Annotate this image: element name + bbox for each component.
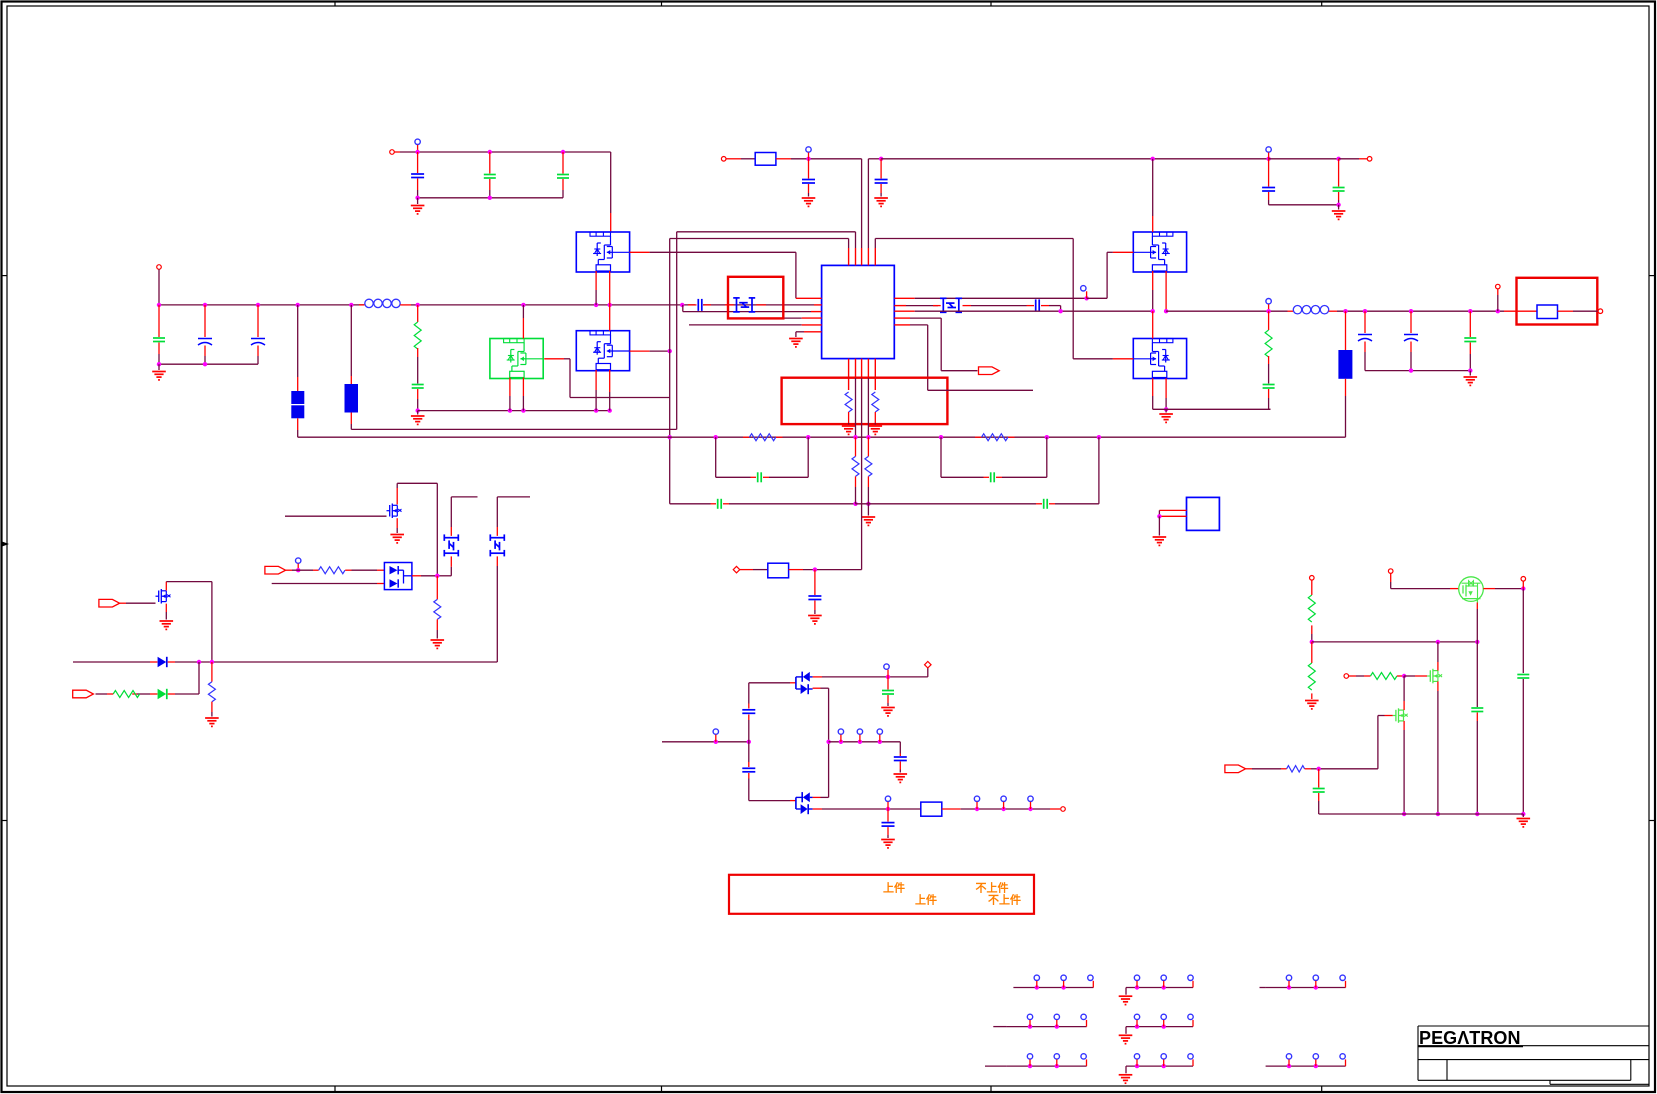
resistor R12 (green)	[132, 693, 137, 695]
resistor R18 (green)	[1311, 642, 1313, 663]
border tick top 3	[990, 2, 992, 7]
ground	[205, 718, 219, 726]
Q8 output	[412, 575, 421, 577]
wire riser to Q1	[610, 152, 612, 213]
resistor R11 (box style)	[768, 563, 789, 578]
terminal	[1310, 576, 1315, 581]
ground	[802, 198, 816, 206]
ground	[158, 364, 160, 370]
capacitor C4	[158, 305, 160, 337]
sense red box	[782, 378, 948, 424]
Q6 source + ground	[165, 604, 167, 612]
component U2 (blue square)	[1187, 497, 1220, 530]
svg-text:不上件: 不上件	[976, 881, 1009, 895]
power symbol circle	[296, 558, 301, 563]
capacitor C2	[489, 152, 491, 174]
Q3 top pin	[522, 305, 524, 318]
off-page arrow connector	[73, 690, 94, 698]
capacitor C18 series	[751, 476, 757, 478]
capacitor C16	[1268, 159, 1270, 187]
capacitor C25	[887, 677, 889, 690]
resistor R9 center column	[855, 437, 857, 456]
connector J8	[1266, 1054, 1346, 1069]
Q1 output pin	[630, 251, 650, 253]
border tick top 4	[1321, 2, 1323, 7]
resistor R13	[211, 662, 213, 682]
resistor R17 (green)	[1311, 580, 1313, 595]
terminal P1	[390, 150, 395, 155]
Q7 source + ground	[396, 518, 398, 528]
node dot	[813, 567, 817, 571]
resistor R1	[417, 305, 419, 322]
node A dots	[157, 303, 161, 307]
outer loop right	[856, 503, 1037, 505]
capacitor C12	[1263, 385, 1275, 389]
wire + terminal	[1050, 808, 1060, 810]
connector J1	[1013, 975, 1093, 990]
capacitor C11	[880, 159, 882, 179]
Q2 top pin	[609, 305, 611, 331]
Q11 source down	[1403, 721, 1405, 730]
resistor R10 center column	[867, 437, 869, 456]
pin left L5 wire	[689, 324, 802, 326]
capacitor C15	[1469, 311, 1471, 337]
pin left L2 bus entry	[703, 304, 814, 306]
pin left L1	[796, 297, 822, 299]
Q10 drain/source risers	[1437, 642, 1439, 662]
node dot	[1266, 157, 1270, 161]
terminal P3	[721, 157, 726, 162]
terminal	[1367, 157, 1372, 162]
capacitor C1	[417, 152, 419, 173]
wire gate drive top A	[677, 231, 856, 233]
Q11 gate wire	[1385, 715, 1393, 717]
node dot	[415, 150, 419, 154]
pin left L6 + ground	[804, 331, 822, 333]
connector J7	[1119, 1054, 1194, 1084]
pin bottom stubs	[848, 359, 850, 390]
wire cap rail	[1365, 370, 1470, 372]
wire	[394, 151, 400, 153]
off-page arrow connector	[265, 566, 286, 574]
Q5 top pin	[1152, 311, 1154, 338]
connector J3	[1266, 975, 1346, 990]
capacitor C13 polarized	[1364, 311, 1366, 333]
pin right R2	[894, 305, 906, 307]
wire source rail	[418, 410, 610, 412]
capacitor C28	[1517, 675, 1529, 679]
capacitor C20 series	[711, 503, 717, 505]
border tick right 1	[1649, 275, 1655, 277]
resistor R19 (green)	[1364, 675, 1371, 677]
RC loop 1	[715, 437, 717, 477]
node dot	[1157, 514, 1161, 518]
Q3 bottom pins	[509, 378, 511, 397]
wire gate drive top B	[670, 238, 849, 240]
pin 2	[1159, 515, 1186, 517]
ground	[1338, 205, 1340, 210]
pin top 1	[848, 248, 850, 265]
connector J5	[1119, 1014, 1194, 1044]
wire rail	[159, 363, 258, 365]
wire R4 to arrow	[941, 370, 977, 372]
pin top 4	[867, 248, 869, 265]
capacitor C6 polarized	[257, 305, 259, 337]
extra wire tails	[993, 1026, 1006, 1028]
off-page arrow connector	[99, 599, 120, 607]
capacitor C14 polarized	[1410, 311, 1412, 333]
transistor Q5 (low-side boxed mosfet, mirrored)	[1133, 339, 1186, 379]
connector J6	[1007, 1054, 1087, 1069]
right vertical with cap	[1522, 589, 1524, 673]
pin right R4	[894, 317, 910, 319]
crystal X1	[725, 304, 734, 306]
off-page arrow connector	[979, 367, 1000, 375]
ground	[1165, 409, 1167, 412]
terminal	[1388, 569, 1393, 574]
power symbol circle	[1266, 147, 1271, 152]
svg-text:不上件: 不上件	[988, 893, 1021, 907]
node dot	[488, 150, 492, 154]
capacitor C19 series	[984, 476, 990, 478]
crystal X1 red box	[728, 277, 783, 319]
gate chain terminal	[1344, 674, 1349, 679]
border tick bottom 2	[661, 1086, 663, 1092]
Q2 bottom pins	[595, 370, 597, 390]
svg-text:上件: 上件	[915, 893, 937, 907]
wire bottom output row	[813, 808, 822, 810]
node dot	[806, 157, 810, 161]
wire middle output row	[829, 741, 901, 743]
inductor L1	[359, 304, 365, 306]
wire	[776, 158, 791, 160]
wire input	[662, 741, 749, 743]
node dot B	[879, 157, 883, 161]
ground	[1158, 516, 1160, 535]
resistor R8 on bus	[975, 436, 982, 438]
terminal output	[1598, 309, 1603, 314]
transistor Q9 (circled green fet)	[1459, 577, 1484, 602]
border tick left 2	[2, 820, 8, 822]
capacitor C24 series vertical	[748, 742, 750, 762]
resistor R7 on bus	[743, 436, 749, 438]
transistor Q1 (high-side boxed mosfet)	[576, 232, 629, 272]
wire	[739, 569, 753, 571]
connector J4	[1007, 1014, 1087, 1029]
wire bottom rail	[418, 197, 563, 199]
terminal above	[1521, 577, 1526, 582]
resistor R15	[436, 576, 438, 600]
wire top branch	[749, 682, 790, 684]
terminal P2	[157, 265, 162, 270]
wire main lower bus	[298, 436, 1346, 438]
wire center columns through box	[855, 378, 857, 437]
terminal stub	[1497, 295, 1499, 311]
main bus wire	[159, 304, 364, 306]
capacitor C7	[412, 385, 424, 389]
capacitor C10	[808, 159, 810, 179]
Q1 bottom pins	[595, 271, 597, 290]
wire	[417, 145, 419, 152]
wire top output	[813, 676, 822, 678]
svg-text:PEGΛTRON: PEGΛTRON	[1419, 1028, 1520, 1048]
border tick right 2	[1649, 820, 1655, 822]
Q7 drain riser	[396, 488, 398, 505]
resistor R16 (box style)	[921, 802, 942, 816]
border tick top 1	[334, 2, 336, 7]
Q5 bottom pins	[1152, 378, 1154, 396]
wire	[120, 602, 126, 604]
capacitor C22	[814, 570, 816, 595]
diode D2 (green)	[168, 693, 175, 695]
fuse F1 (blue stacked component)	[297, 305, 299, 377]
Q4 top riser	[1152, 159, 1154, 216]
ground	[881, 708, 895, 716]
off-page arrow connector	[1225, 765, 1246, 773]
wire bus	[73, 661, 150, 663]
wire gate drive top C (right side)	[875, 238, 1073, 240]
wire Q1 gate to IC	[650, 251, 796, 253]
capacitor C30	[1318, 769, 1320, 788]
thermistor R (blue component)	[350, 305, 352, 376]
power symbol circle	[884, 664, 889, 669]
pin top 2	[855, 248, 857, 265]
connector J2	[1119, 975, 1194, 1005]
resistor R14	[313, 569, 319, 571]
Q4 gate wire from R1	[1084, 296, 1088, 300]
wire node B segment	[868, 158, 881, 160]
pin top 3	[861, 248, 863, 265]
pin 1	[1159, 509, 1186, 511]
ground	[894, 774, 908, 782]
diode D3 dual (top pair)	[796, 672, 813, 695]
wire ground rail	[1319, 813, 1524, 815]
wire	[158, 269, 160, 305]
wire divider row	[1312, 641, 1478, 643]
crystal X2	[933, 305, 941, 307]
power symbol circle	[806, 147, 811, 152]
Q9 right pin	[1483, 588, 1495, 590]
ground	[874, 198, 888, 206]
wire	[286, 569, 292, 571]
wire to vertical riser	[350, 424, 352, 429]
wire boot net vertical	[676, 232, 678, 430]
wire bottom branch	[749, 800, 790, 802]
power symbol circle	[1266, 299, 1271, 304]
node dots	[714, 435, 718, 439]
transistor Q4 (high-side boxed mosfet, mirrored)	[1133, 232, 1186, 272]
transistor Q11 (green)	[1393, 708, 1408, 723]
resistor R5 in box	[845, 392, 852, 412]
border tick left 1	[2, 275, 8, 277]
capacitor C9 series	[1027, 305, 1035, 307]
ground	[1305, 701, 1319, 709]
wire rail	[1269, 204, 1339, 206]
capacitor C17	[1338, 159, 1340, 187]
op-amp U1 body	[822, 265, 895, 358]
capacitor C21 series	[1036, 503, 1042, 505]
wire bus to right	[1027, 310, 1153, 312]
transistor Q8 dual-fet box	[384, 563, 412, 590]
ground	[808, 616, 822, 624]
RC loop 2	[940, 437, 942, 477]
node dot	[561, 150, 565, 154]
ground	[1522, 814, 1524, 817]
Q5 gate wire	[1073, 358, 1113, 360]
ground	[417, 411, 419, 415]
inductor L2	[1288, 310, 1294, 312]
outer loop left	[670, 503, 711, 505]
wire drop to green diode row	[198, 662, 200, 694]
power symbol circles	[838, 729, 843, 734]
note red box	[729, 875, 1034, 914]
transistor Q6	[156, 589, 171, 604]
ground on center column	[867, 504, 869, 516]
border tick bottom 3	[990, 1086, 992, 1092]
node dots on bus at mosfet pins	[521, 303, 525, 307]
wire bus after L2	[1337, 310, 1504, 312]
ground	[417, 198, 419, 204]
wire bus after inductor	[418, 304, 695, 306]
transistor Q2 (low-side boxed mosfet)	[576, 331, 629, 371]
wire to right section	[881, 158, 1269, 160]
capacitor C29	[1471, 708, 1483, 712]
transistor Q10 (green)	[1427, 669, 1442, 684]
Q7 gate wire	[285, 515, 387, 517]
component FB (blue block)	[1345, 311, 1347, 350]
note text 上件	[883, 881, 1021, 907]
power symbol circle	[885, 796, 890, 801]
node + jog to L3 wire	[680, 303, 684, 307]
terminal P4 (diamond)	[733, 566, 740, 573]
pin right R5	[894, 324, 910, 326]
resistor R4 (box style) in red box	[1504, 310, 1537, 312]
capacitor C26	[899, 742, 901, 754]
Q4 bottom pins	[1152, 271, 1154, 290]
resistor R20	[1281, 768, 1287, 770]
node dot	[415, 196, 419, 200]
pin top 5	[874, 248, 876, 265]
ground	[869, 426, 883, 434]
wire	[1269, 158, 1339, 160]
ground	[1469, 371, 1471, 376]
wire	[1246, 768, 1252, 770]
wire	[789, 569, 803, 571]
ground	[431, 640, 445, 648]
wire phase net vertical	[669, 239, 671, 504]
Q9 bottom pin vertical	[1476, 599, 1478, 603]
wire center column continues	[861, 516, 863, 570]
svg-text:上件: 上件	[883, 881, 905, 895]
wire bus	[1166, 310, 1287, 312]
pin left L3 wire	[683, 311, 811, 313]
wire top pair lower output to mid vertical	[813, 687, 821, 689]
border tick top 2	[661, 2, 663, 7]
wire to pass fet	[1391, 588, 1450, 590]
border tick bottom 4	[1321, 1086, 1323, 1092]
wire lower gate input	[272, 583, 377, 585]
wire connector row	[961, 808, 1050, 810]
capacitor C5 polarized	[204, 305, 206, 337]
pin right R3 long bus	[894, 310, 914, 312]
wire	[726, 158, 741, 160]
power symbol circle	[415, 139, 420, 144]
ground	[881, 840, 895, 848]
transistor Q3 (green boxed mosfet)	[490, 339, 543, 379]
resistor R3 divider chain	[1268, 311, 1270, 330]
wire to terminal	[927, 667, 929, 677]
node dot riser to Q4	[1151, 157, 1155, 161]
output red box	[1517, 278, 1598, 325]
border zone arrow left middle	[2, 542, 9, 547]
Q2 output pin	[630, 350, 650, 352]
capacitor C8 series on bus	[688, 304, 697, 306]
diode D1	[150, 661, 157, 663]
crystal X4	[497, 496, 530, 498]
power symbol circle	[713, 729, 718, 734]
Q6 drain wire	[165, 582, 167, 591]
crystal X3	[451, 496, 477, 498]
transistor Q7	[387, 504, 402, 519]
Q3 output pin	[544, 358, 564, 360]
diode D4 dual (bottom pair)	[796, 792, 813, 814]
capacitor C23 series vertical	[748, 683, 750, 704]
resistor R2 (box style)	[755, 153, 776, 166]
wire	[175, 661, 497, 663]
connector circles	[974, 796, 979, 801]
pin left L4	[783, 317, 801, 319]
border tick bottom 1	[334, 1086, 336, 1092]
capacitor C27	[887, 809, 889, 822]
node dot	[488, 196, 492, 200]
wire source rail right	[1153, 408, 1271, 410]
resistor R6 in box	[872, 392, 879, 412]
pin right R1	[894, 297, 914, 299]
capacitor C3	[562, 152, 564, 174]
wire bottom pair upper output	[813, 796, 821, 798]
Q11 drain riser from gate node	[1403, 676, 1405, 701]
wire R5 out	[928, 389, 1033, 391]
ground	[842, 426, 856, 434]
